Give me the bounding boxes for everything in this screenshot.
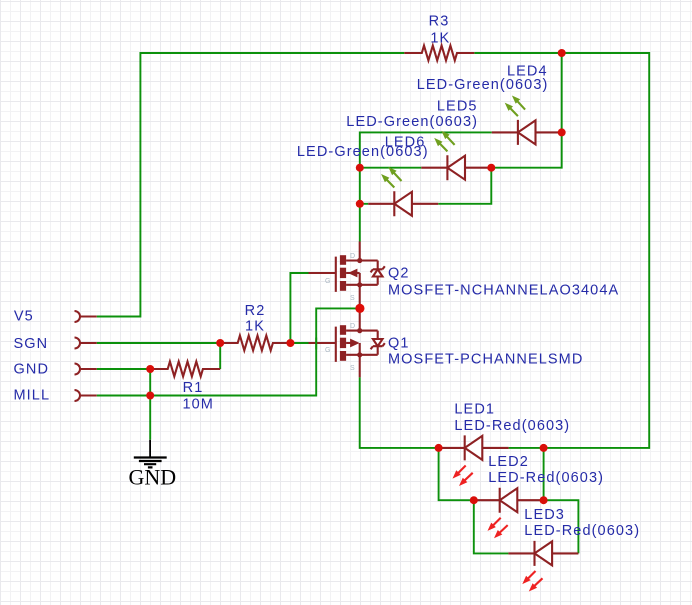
svg-text:Q2: Q2 [388, 266, 410, 282]
svg-text:G: G [325, 278, 330, 285]
svg-text:SGN: SGN [14, 336, 49, 352]
svg-text:LED2: LED2 [488, 454, 529, 470]
svg-text:V5: V5 [14, 308, 34, 324]
svg-text:GND: GND [14, 361, 50, 377]
svg-text:S: S [350, 295, 355, 302]
svg-text:D: D [350, 253, 355, 260]
svg-text:Q1: Q1 [388, 335, 410, 351]
svg-text:1K: 1K [430, 31, 450, 47]
svg-text:MILL: MILL [14, 387, 51, 403]
svg-text:LED-Red(0603): LED-Red(0603) [454, 418, 570, 434]
svg-text:10M: 10M [182, 397, 214, 413]
svg-text:R3: R3 [429, 14, 450, 30]
svg-text:LED-Red(0603): LED-Red(0603) [524, 523, 640, 539]
svg-text:MOSFET-NCHANNELAO3404A: MOSFET-NCHANNELAO3404A [388, 283, 619, 299]
svg-text:S: S [350, 365, 355, 372]
svg-text:D: D [350, 323, 355, 330]
svg-text:LED-Green(0603): LED-Green(0603) [346, 114, 478, 130]
svg-text:LED3: LED3 [524, 507, 565, 523]
svg-text:LED-Red(0603): LED-Red(0603) [488, 470, 604, 486]
svg-text:1K: 1K [245, 319, 265, 335]
svg-text:LED-Green(0603): LED-Green(0603) [297, 144, 429, 160]
svg-text:LED-Green(0603): LED-Green(0603) [417, 77, 549, 93]
svg-text:GND: GND [129, 465, 177, 490]
svg-text:G: G [325, 347, 330, 354]
svg-text:MOSFET-PCHANNELSMD: MOSFET-PCHANNELSMD [388, 351, 583, 367]
svg-text:R2: R2 [245, 303, 266, 319]
svg-text:LED5: LED5 [437, 99, 478, 115]
svg-text:R1: R1 [183, 380, 204, 396]
svg-text:LED1: LED1 [454, 402, 495, 418]
